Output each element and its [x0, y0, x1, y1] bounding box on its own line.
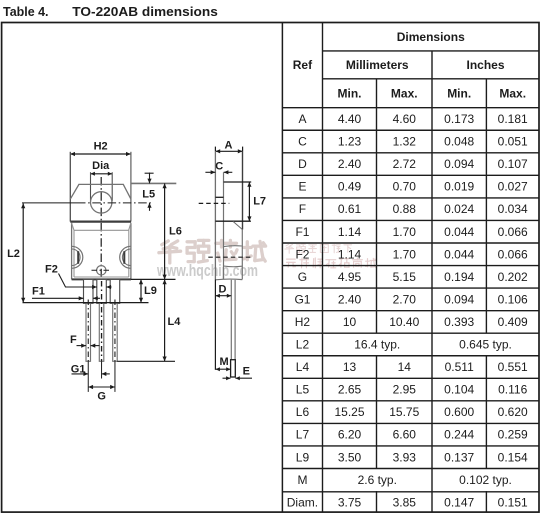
svg-text:0.173: 0.173 — [444, 112, 474, 126]
dim L2 vertical with arrows — [21, 203, 25, 302]
side lower centerline (dash-dot) — [208, 256, 252, 258]
svg-text:2.65: 2.65 — [338, 383, 362, 397]
svg-text:Diam.: Diam. — [287, 495, 318, 509]
svg-text:2.6 typ.: 2.6 typ. — [358, 473, 397, 487]
svg-text:F1: F1 — [32, 286, 45, 298]
svg-text:L6: L6 — [296, 405, 310, 419]
svg-text:Dimensions: Dimensions — [397, 30, 465, 44]
svg-text:L2: L2 — [7, 248, 20, 260]
svg-text:Min.: Min. — [447, 86, 471, 100]
svg-text:4.95: 4.95 — [338, 270, 362, 284]
svg-text:4.40: 4.40 — [338, 112, 362, 126]
svg-text:6.20: 6.20 — [338, 428, 362, 442]
lead centerline extensions below tips — [88, 361, 115, 392]
svg-text:0.202: 0.202 — [498, 270, 528, 284]
svg-text:14: 14 — [398, 360, 412, 374]
svg-text:0.044: 0.044 — [444, 225, 474, 239]
svg-text:0.066: 0.066 — [498, 225, 528, 239]
reference line y=302.6 (L2/L9 bottom) — [23, 302, 149, 304]
svg-text:0.70: 0.70 — [393, 180, 417, 194]
svg-text:0.151: 0.151 — [498, 495, 528, 509]
dim F2 arrows — [92, 285, 111, 289]
svg-text:0.154: 0.154 — [498, 450, 528, 464]
svg-text:Min.: Min. — [338, 86, 362, 100]
svg-text:Millimeters: Millimeters — [346, 58, 409, 72]
table data rows — [287, 112, 528, 509]
M extension line (back edge continued) — [214, 279, 216, 369]
hole line across tab — [215, 196, 223, 198]
svg-text:2.72: 2.72 — [393, 157, 417, 171]
svg-text:0.645 typ.: 0.645 typ. — [459, 338, 512, 352]
watermark: faint pink line 1 (table) — [285, 244, 352, 253]
svg-text:TO-220AB dimensions: TO-220AB dimensions — [72, 4, 218, 19]
svg-text:3.50: 3.50 — [338, 450, 362, 464]
svg-text:0.511: 0.511 — [445, 360, 474, 374]
svg-text:M: M — [220, 356, 229, 368]
svg-text:Max.: Max. — [499, 86, 526, 100]
svg-text:L9: L9 — [144, 285, 157, 297]
dim F1 arrows — [79, 296, 100, 300]
svg-text:H2: H2 — [94, 141, 108, 153]
front view tab outline (top edge + chamfers) — [70, 184, 131, 199]
svg-text:G1: G1 — [294, 292, 310, 306]
dim L5 arrows — [145, 173, 154, 211]
lead tip block (black) — [231, 360, 236, 377]
svg-text:1.23: 1.23 — [338, 135, 362, 149]
svg-text:0.107: 0.107 — [498, 157, 528, 171]
svg-text:0.116: 0.116 — [498, 383, 527, 397]
svg-text:2.95: 2.95 — [393, 383, 417, 397]
svg-text:6.60: 6.60 — [393, 428, 417, 442]
svg-text:M: M — [297, 473, 307, 487]
svg-text:5.15: 5.15 — [393, 270, 417, 284]
svg-text:Ref: Ref — [293, 58, 313, 72]
svg-text:L9: L9 — [296, 450, 310, 464]
dim L4 vertical with arrows — [163, 279, 167, 361]
svg-text:G: G — [97, 390, 106, 402]
svg-text:A: A — [225, 139, 233, 151]
hole horizontal centerline (dash-dot) — [22, 202, 153, 204]
front view vertical centerline (dash-dot) — [100, 177, 102, 279]
dim F2 label + leader — [45, 264, 97, 287]
side front lower edge — [241, 230, 243, 280]
svg-text:L4: L4 — [296, 360, 310, 374]
small bottom circle with crosshair — [92, 266, 112, 275]
svg-text:0.027: 0.027 — [498, 180, 528, 194]
svg-text:10: 10 — [343, 315, 357, 329]
svg-text:2.40: 2.40 — [338, 157, 362, 171]
lead tip reference line (L4 bottom) — [117, 360, 175, 362]
dim L7 vertical with arrows — [247, 182, 251, 221]
front leads: thin sections — [86, 303, 117, 361]
svg-text:D: D — [298, 157, 307, 171]
svg-text:0.600: 0.600 — [444, 405, 474, 419]
svg-text:3.75: 3.75 — [338, 495, 362, 509]
dim G1 arrows — [72, 372, 110, 376]
svg-text:3.93: 3.93 — [393, 450, 417, 464]
svg-text:1.32: 1.32 — [393, 135, 417, 149]
svg-text:L4: L4 — [168, 316, 182, 328]
svg-text:0.051: 0.051 — [498, 135, 528, 149]
dim L9 vertical with arrows — [139, 279, 143, 302]
svg-text:0.49: 0.49 — [338, 180, 362, 194]
svg-text:Inches: Inches — [466, 58, 504, 72]
svg-text:0.620: 0.620 — [498, 405, 528, 419]
svg-text:1.14: 1.14 — [338, 247, 362, 261]
svg-text:0.259: 0.259 — [498, 428, 528, 442]
svg-text:15.25: 15.25 — [334, 405, 364, 419]
svg-text:0.106: 0.106 — [498, 292, 528, 306]
dim M line with arrows — [216, 367, 231, 371]
svg-text:L5: L5 — [296, 383, 310, 397]
svg-text:16.4 typ.: 16.4 typ. — [354, 338, 400, 352]
L7 top reference line — [224, 181, 252, 183]
dim D line with arrows — [216, 294, 232, 298]
svg-text:0.104: 0.104 — [444, 383, 474, 397]
svg-text:F: F — [70, 334, 77, 346]
side view back edge (tab rear) — [214, 151, 216, 279]
svg-text:H2: H2 — [295, 315, 311, 329]
svg-text:0.094: 0.094 — [444, 292, 474, 306]
dim Dia line with arrows — [91, 172, 113, 176]
H2 extension / tab side edges — [70, 152, 131, 222]
tab bottom edge (dark) — [70, 221, 131, 223]
side lead — [231, 280, 235, 360]
svg-text:0.137: 0.137 — [444, 450, 474, 464]
svg-text:0.066: 0.066 — [498, 247, 528, 261]
svg-text:L2: L2 — [296, 338, 310, 352]
svg-text:0.409: 0.409 — [498, 315, 528, 329]
watermark: faint pink line 2 (table) — [287, 258, 376, 268]
svg-text:E: E — [243, 366, 250, 378]
dim A line with arrows + end ticks — [215, 147, 242, 154]
svg-text:E: E — [298, 180, 306, 194]
mounting hole — [91, 192, 112, 213]
svg-text:0.019: 0.019 — [444, 180, 474, 194]
dim H2 line with arrows — [70, 152, 131, 156]
dim C arrows — [205, 170, 232, 174]
svg-text:C: C — [215, 161, 223, 173]
svg-text:L7: L7 — [253, 196, 266, 208]
side body bottom (wavy) — [215, 278, 242, 281]
svg-text:1.14: 1.14 — [338, 225, 362, 239]
svg-text:C: C — [298, 135, 307, 149]
svg-text:F2: F2 — [295, 247, 309, 261]
svg-text:0.244: 0.244 — [444, 428, 474, 442]
body outline — [72, 223, 131, 280]
step chamfer diagonal — [233, 221, 242, 229]
right side notch (arcs + dark slot) — [120, 246, 131, 268]
dim L6 vertical with arrows — [163, 183, 167, 279]
side hole centerline (dash-dot) — [199, 202, 230, 204]
svg-text:0.194: 0.194 — [444, 270, 474, 284]
tab front edge — [223, 172, 225, 279]
svg-text:G: G — [298, 270, 307, 284]
dim F1 label + leader — [32, 286, 84, 299]
svg-text:F1: F1 — [295, 225, 309, 239]
svg-text:Max.: Max. — [391, 86, 418, 100]
svg-text:2.40: 2.40 — [338, 292, 362, 306]
table grid horizontals — [282, 51, 539, 492]
svg-text:1.70: 1.70 — [393, 225, 417, 239]
svg-text:L7: L7 — [296, 428, 310, 442]
divider: drawing box right edge / table left border — [281, 23, 283, 513]
svg-text:L6: L6 — [169, 226, 182, 238]
svg-text:0.102 typ.: 0.102 typ. — [459, 473, 512, 487]
tab top reference line (gray, to L5/L6) — [131, 182, 176, 184]
svg-text:4.60: 4.60 — [393, 112, 417, 126]
body bottom reference line (L6/L9/L4 top) — [131, 278, 176, 280]
dim E arrows — [223, 376, 253, 380]
body bottom edge (dark) — [72, 278, 131, 280]
svg-text:13: 13 — [343, 360, 357, 374]
svg-text:0.393: 0.393 — [444, 315, 474, 329]
svg-text:0.61: 0.61 — [338, 202, 362, 216]
svg-text:Table 4.: Table 4. — [3, 4, 49, 19]
svg-text:0.181: 0.181 — [498, 112, 528, 126]
svg-text:0.147: 0.147 — [444, 495, 474, 509]
svg-text:Dia: Dia — [92, 160, 110, 172]
svg-text:F2: F2 — [45, 264, 58, 276]
svg-text:F: F — [299, 202, 306, 216]
svg-text:0.034: 0.034 — [498, 202, 528, 216]
svg-text:0.024: 0.024 — [444, 202, 474, 216]
svg-text:0.048: 0.048 — [444, 135, 474, 149]
dim F arrows — [77, 344, 100, 348]
Dia extension lines — [91, 172, 113, 201]
svg-text:L5: L5 — [142, 189, 155, 201]
side boss outline — [224, 246, 242, 267]
left side notch (arcs + dark slot) — [72, 246, 83, 268]
step line y=221.2 — [215, 220, 251, 222]
svg-text:10.40: 10.40 — [389, 315, 419, 329]
svg-text:0.094: 0.094 — [444, 157, 474, 171]
lead centerlines (dash-dot) — [88, 281, 115, 361]
svg-text:2.70: 2.70 — [393, 292, 417, 306]
side view front upper edge (dark) — [242, 151, 244, 229]
watermark: big pink Chinese chars (drawn strokes) — [159, 240, 266, 263]
table header text — [293, 30, 526, 101]
svg-text:15.75: 15.75 — [389, 405, 419, 419]
svg-text:0.88: 0.88 — [393, 202, 417, 216]
svg-text:0.551: 0.551 — [498, 360, 528, 374]
svg-text:1.70: 1.70 — [393, 247, 417, 261]
dim G line with arrows — [88, 385, 115, 389]
front leads: thick sections — [84, 279, 120, 303]
table grid verticals — [323, 23, 487, 513]
svg-text:3.85: 3.85 — [393, 495, 417, 509]
svg-text:0.044: 0.044 — [444, 247, 474, 261]
svg-text:A: A — [298, 112, 306, 126]
